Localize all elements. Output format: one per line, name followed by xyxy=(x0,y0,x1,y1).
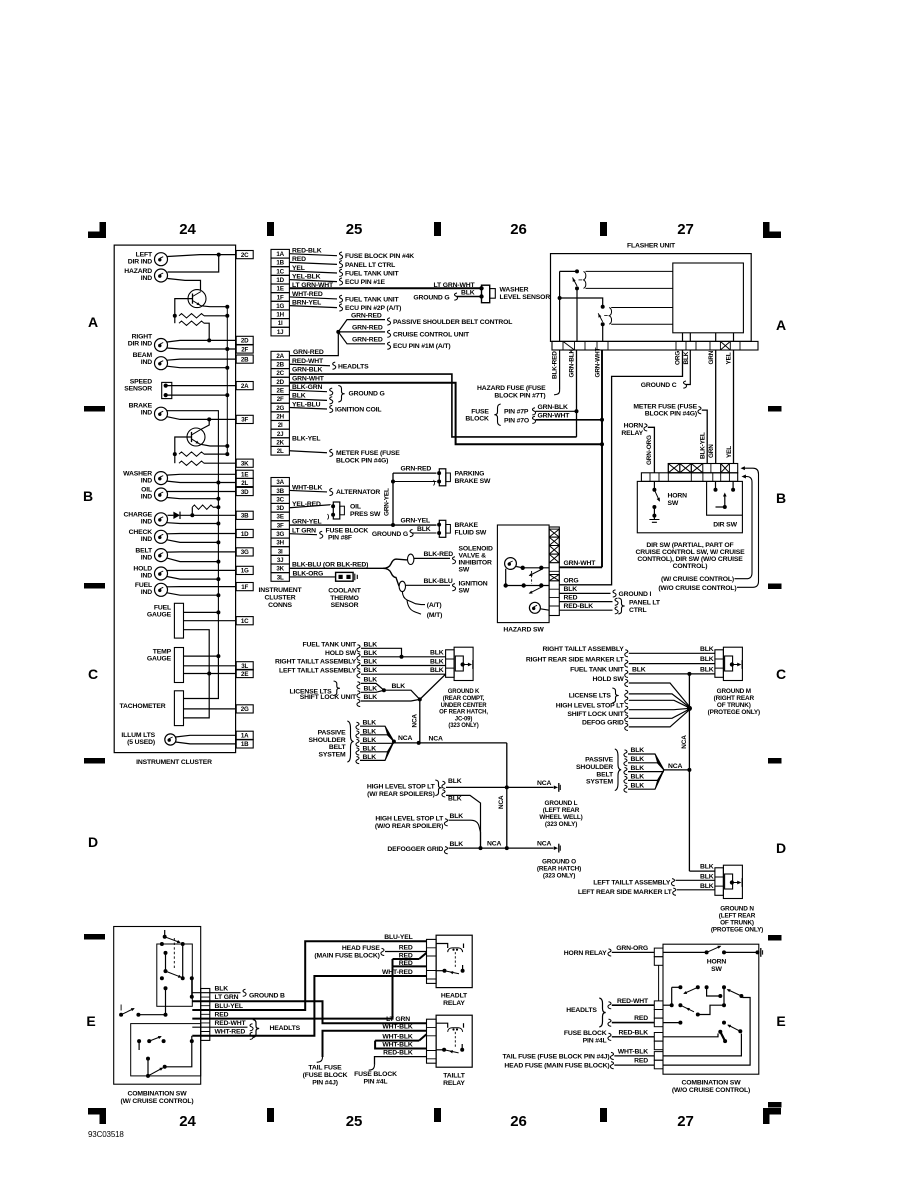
hook belt-left row4 xyxy=(356,748,359,755)
svg-text:GRN-WHT: GRN-WHT xyxy=(564,560,597,567)
wire 3G LT GRN fuse block xyxy=(289,534,317,535)
svg-text:BLK: BLK xyxy=(364,676,378,683)
svg-text:GRN-YEL: GRN-YEL xyxy=(292,519,322,526)
wire 2A GRN-RED riser xyxy=(289,332,338,356)
headlt relay contact xyxy=(443,969,447,973)
svg-text:GROUND O: GROUND O xyxy=(542,858,576,865)
cluster tab 2E xyxy=(236,669,253,677)
svg-text:RED-WHT: RED-WHT xyxy=(215,1020,247,1027)
svg-text:(W/ CRUISE CONTROL): (W/ CRUISE CONTROL) xyxy=(120,1098,193,1105)
svg-text:COOLANT: COOLANT xyxy=(328,588,362,595)
wire hazard RED-BLK xyxy=(559,609,612,611)
svg-text:GAUGE: GAUGE xyxy=(147,612,172,619)
wire hl stop top xyxy=(442,781,445,788)
ground M connector xyxy=(715,650,724,678)
hook belt-left row2 xyxy=(356,731,359,738)
svg-text:METER FUSE (FUSE: METER FUSE (FUSE xyxy=(336,450,400,457)
svg-text:RED: RED xyxy=(634,1015,648,1022)
svg-text:FUEL TANK UNIT: FUEL TANK UNIT xyxy=(302,641,357,648)
wire gk license merge xyxy=(384,690,420,699)
svg-text:SW: SW xyxy=(459,588,470,595)
svg-text:RED: RED xyxy=(292,256,306,263)
svg-text:2A: 2A xyxy=(241,383,249,390)
connector pin 2K xyxy=(271,438,289,447)
connector pin 3A xyxy=(271,478,289,487)
wire washer ind to 2L xyxy=(167,481,236,482)
wire 3B WHT-BLK alternator xyxy=(289,490,327,492)
svg-text:GROUND B: GROUND B xyxy=(249,993,285,1000)
wire flasher cross xyxy=(560,298,603,307)
connector pin 2C xyxy=(271,369,289,378)
wire A/T branch xyxy=(402,592,425,605)
connector pin 1A xyxy=(271,249,289,258)
wire wht-blk inside xyxy=(663,1034,741,1056)
svg-text:RIGHT: RIGHT xyxy=(132,334,153,341)
hook belt-right row4 xyxy=(624,776,627,783)
cluster tab 3F xyxy=(236,415,253,423)
svg-text:2E: 2E xyxy=(277,388,284,395)
speed sensor xyxy=(162,382,172,398)
connector pin 2I xyxy=(271,421,289,430)
svg-text:SOLENOID: SOLENOID xyxy=(459,546,494,553)
svg-text:CTRL: CTRL xyxy=(629,607,647,614)
svg-text:PIN #4L: PIN #4L xyxy=(364,1079,388,1086)
svg-text:2B: 2B xyxy=(276,362,284,369)
svg-text:BLK: BLK xyxy=(631,747,645,754)
svg-text:2D: 2D xyxy=(276,379,284,386)
svg-text:GRN: GRN xyxy=(708,444,715,458)
combination sw w/cruise box xyxy=(114,927,201,1085)
svg-text:PIN #7P: PIN #7P xyxy=(504,408,529,415)
svg-text:CLUSTER: CLUSTER xyxy=(264,595,295,602)
svg-text:2C: 2C xyxy=(276,370,284,377)
wire beam ind to 2B xyxy=(167,359,236,360)
svg-text:GROUND C: GROUND C xyxy=(641,382,677,389)
node gk junction xyxy=(418,697,422,701)
wire illum to 1A xyxy=(176,735,237,737)
wire 1F WHT-RED xyxy=(289,297,337,299)
wire gk fuel tank xyxy=(361,648,402,657)
svg-text:BELT: BELT xyxy=(329,744,347,751)
wire temp gauge to 3L xyxy=(184,665,237,667)
cluster tab 2F xyxy=(236,345,253,353)
grid corner mark top-right xyxy=(763,222,770,238)
margin dash right y758 xyxy=(768,758,782,764)
svg-text:COMBINATION SW: COMBINATION SW xyxy=(682,1080,742,1087)
svg-text:3F: 3F xyxy=(277,522,284,529)
svg-text:BLK-RED: BLK-RED xyxy=(424,551,454,558)
svg-text:IND: IND xyxy=(141,573,152,580)
svg-text:3L: 3L xyxy=(277,574,284,581)
svg-text:LICENSE LTS: LICENSE LTS xyxy=(569,693,612,700)
svg-text:HORN RELAY: HORN RELAY xyxy=(564,950,607,957)
wire 2B RED-WHT headlts xyxy=(289,364,330,366)
svg-text:RED-BLK: RED-BLK xyxy=(564,603,594,610)
oil pressure switch xyxy=(333,502,340,519)
svg-text:BLK: BLK xyxy=(631,774,645,781)
svg-text:25: 25 xyxy=(346,1113,362,1130)
connector pin 3I xyxy=(271,547,289,556)
svg-text:27: 27 xyxy=(677,1113,693,1130)
svg-text:HEAD FUSE (MAIN FUSE BLOCK): HEAD FUSE (MAIN FUSE BLOCK) xyxy=(504,1063,609,1070)
svg-text:BLK-YEL: BLK-YEL xyxy=(292,436,320,443)
cluster tab 3G xyxy=(236,548,253,556)
svg-text:LT GRN: LT GRN xyxy=(292,527,316,534)
wire ground L to connector xyxy=(507,786,554,788)
connector pin 3H xyxy=(271,538,289,547)
svg-text:RED: RED xyxy=(634,1058,648,1065)
svg-text:BLK: BLK xyxy=(364,685,378,692)
label GROUND G brace xyxy=(338,386,344,403)
svg-text:GROUND I: GROUND I xyxy=(619,591,652,598)
headlt relay box xyxy=(436,935,472,987)
svg-text:NCA: NCA xyxy=(681,735,688,749)
svg-text:GROUND L: GROUND L xyxy=(545,800,578,807)
svg-text:FUEL TANK UNIT: FUEL TANK UNIT xyxy=(345,296,400,303)
svg-text:BLK: BLK xyxy=(430,667,444,674)
wire 1G BRN-YEL xyxy=(289,306,337,308)
svg-text:CONNS: CONNS xyxy=(268,602,292,609)
wire flasher left vertical xyxy=(560,270,577,272)
svg-text:SENSOR: SENSOR xyxy=(124,385,152,392)
svg-text:2B: 2B xyxy=(241,356,249,363)
svg-text:BRAKE SW: BRAKE SW xyxy=(455,478,492,485)
wire GRN-WHT vertical xyxy=(601,350,603,567)
svg-text:RED-BLK: RED-BLK xyxy=(618,1029,648,1036)
svg-text:CHARGE: CHARGE xyxy=(123,512,152,519)
hook license lts 2 xyxy=(357,691,360,698)
svg-text:TACHOMETER: TACHOMETER xyxy=(120,703,166,710)
node gm junction xyxy=(687,706,692,711)
wire brake ind to 3F xyxy=(167,417,236,420)
svg-text:3B: 3B xyxy=(276,488,284,495)
flasher relay 2 xyxy=(601,305,605,309)
svg-text:NCA: NCA xyxy=(429,735,444,742)
svg-text:OF REAR HATCH,: OF REAR HATCH, xyxy=(439,710,488,716)
connector pin 3G xyxy=(271,529,289,538)
svg-text:CHECK: CHECK xyxy=(129,529,153,536)
lamp CHARGE IND xyxy=(155,513,168,526)
svg-text:DEFOGGER GRID: DEFOGGER GRID xyxy=(387,846,443,853)
svg-text:RED: RED xyxy=(399,944,413,951)
svg-text:OF TRUNK): OF TRUNK) xyxy=(720,920,754,927)
svg-text:TEMP: TEMP xyxy=(153,649,172,656)
svg-text:(REAR HATCH): (REAR HATCH) xyxy=(537,865,581,872)
wire pin 7P GRN-BLK xyxy=(532,408,535,415)
wire oil ind to bus xyxy=(167,498,218,499)
inline connector lower xyxy=(399,581,405,591)
svg-text:VALVE &: VALVE & xyxy=(459,553,487,560)
svg-text:GRN-WHT: GRN-WHT xyxy=(292,375,325,382)
dir sw inner box xyxy=(707,481,743,515)
svg-text:FLASHER UNIT: FLASHER UNIT xyxy=(627,242,676,249)
svg-text:PIN #8F: PIN #8F xyxy=(328,535,352,542)
svg-text:1H: 1H xyxy=(276,312,284,319)
svg-text:GRN-BLK: GRN-BLK xyxy=(538,404,569,411)
lamp ILLUM LTS xyxy=(165,734,176,745)
svg-text:BLK: BLK xyxy=(450,813,464,820)
dir sw contacts xyxy=(714,488,718,492)
wire beam ind lower to bus xyxy=(167,366,227,368)
wire gm NCA vertical xyxy=(688,674,690,871)
cluster tab 3B xyxy=(236,511,253,519)
svg-text:SHIFT LOCK UNIT: SHIFT LOCK UNIT xyxy=(300,694,357,701)
svg-text:CONTROL): CONTROL) xyxy=(673,563,708,570)
grid corner mark bottom-left xyxy=(100,1108,107,1124)
svg-text:FLUID SW: FLUID SW xyxy=(455,529,487,536)
connector pin 3J xyxy=(271,555,289,564)
svg-text:LT GRN-WHT: LT GRN-WHT xyxy=(434,282,476,289)
wire hazard RED xyxy=(559,601,612,603)
svg-text:2J: 2J xyxy=(277,431,284,438)
wire RED-BLK taillt xyxy=(375,1057,427,1065)
comb sw2 turn switch xyxy=(678,985,682,989)
svg-text:ORG: ORG xyxy=(675,351,682,365)
combination sw w/o cruise box xyxy=(663,944,759,1074)
wire Q1 collector to bus xyxy=(201,305,227,308)
svg-text:GROUND G: GROUND G xyxy=(349,391,385,398)
svg-text:GRN-WHT: GRN-WHT xyxy=(595,347,602,377)
svg-text:WHT-RED: WHT-RED xyxy=(382,969,413,976)
instrument cluster box xyxy=(114,245,235,752)
svg-text:BLK: BLK xyxy=(364,667,378,674)
svg-text:1C: 1C xyxy=(276,268,284,275)
svg-text:BLK: BLK xyxy=(364,694,378,701)
label headlts brace left xyxy=(253,1020,259,1038)
svg-text:GRN-YEL: GRN-YEL xyxy=(384,488,391,516)
svg-text:BLK: BLK xyxy=(700,883,714,890)
svg-text:BLK: BLK xyxy=(700,864,714,871)
wire WHT-BLK u-shape xyxy=(375,1041,426,1049)
svg-text:3D: 3D xyxy=(241,489,249,496)
svg-text:DIR SW: DIR SW xyxy=(713,522,737,529)
svg-text:GRN: GRN xyxy=(708,350,715,364)
svg-text:HAZARD SW: HAZARD SW xyxy=(503,627,544,634)
svg-text:THERMO: THERMO xyxy=(330,595,359,602)
svg-text:3J: 3J xyxy=(277,557,284,564)
wire hold ind to 1G xyxy=(167,569,236,571)
svg-text:1J: 1J xyxy=(277,329,284,336)
wire comb LT GRN xyxy=(192,1001,426,1023)
svg-text:BLOCK PIN #4G): BLOCK PIN #4G) xyxy=(336,457,388,464)
svg-text:(MAIN FUSE BLOCK): (MAIN FUSE BLOCK) xyxy=(314,952,379,959)
svg-text:TAIL FUSE: TAIL FUSE xyxy=(308,1065,342,1072)
svg-text:IND: IND xyxy=(141,275,152,282)
svg-text:RED-WHT: RED-WHT xyxy=(617,998,649,1005)
svg-text:RELAY: RELAY xyxy=(443,1000,465,1007)
wire hazard BLK ground i xyxy=(559,592,610,594)
svg-text:SW: SW xyxy=(668,500,679,507)
grid tick bottom 26/27 xyxy=(600,1108,607,1122)
connector pin 3L xyxy=(271,573,289,582)
svg-text:B: B xyxy=(83,488,93,504)
wire fuel ind to bus xyxy=(167,593,218,595)
flasher connector strip xyxy=(552,341,758,350)
wire gk left taillt xyxy=(361,673,446,675)
svg-text:1D: 1D xyxy=(241,531,249,538)
hook belt-right row1 xyxy=(624,750,627,757)
taillt relay contact xyxy=(442,1048,446,1052)
svg-text:(REAR COMPT,: (REAR COMPT, xyxy=(443,696,485,702)
svg-text:2F: 2F xyxy=(277,396,284,403)
svg-text:3A: 3A xyxy=(276,479,284,486)
svg-text:(RIGHT REAR: (RIGHT REAR xyxy=(714,695,755,702)
connector pin 2F xyxy=(271,395,289,404)
cluster tab 2B xyxy=(236,355,253,363)
dir sw connector upper row xyxy=(668,464,737,473)
svg-text:PRES SW: PRES SW xyxy=(350,511,381,518)
node belt-left NCA xyxy=(392,740,396,744)
connector pin 1B xyxy=(271,258,289,267)
cluster tab 3D xyxy=(236,487,253,495)
svg-text:E: E xyxy=(776,1013,785,1029)
svg-text:HIGH LEVEL STOP LT: HIGH LEVEL STOP LT xyxy=(375,815,444,822)
wire 2F BLK xyxy=(289,399,327,401)
wire gm license1 xyxy=(629,694,690,707)
lamp BELT IND xyxy=(155,549,168,562)
comb sw left mini switch xyxy=(119,1013,123,1017)
svg-text:GRN-BLK: GRN-BLK xyxy=(569,349,576,378)
wire gn left taillt xyxy=(676,879,715,881)
svg-text:FUSE BLOCK PIN #4K: FUSE BLOCK PIN #4K xyxy=(345,253,414,260)
svg-text:LEFT TAILLT ASSEMBLY: LEFT TAILLT ASSEMBLY xyxy=(593,879,671,886)
svg-text:BLOCK PIN #7T): BLOCK PIN #7T) xyxy=(494,393,545,400)
wire gm high level xyxy=(629,708,690,709)
svg-text:GROUND M: GROUND M xyxy=(717,688,751,695)
svg-text:WHT-BLK: WHT-BLK xyxy=(382,1024,413,1031)
svg-text:26: 26 xyxy=(510,221,526,238)
svg-text:METER FUSE (FUSE: METER FUSE (FUSE xyxy=(633,403,697,410)
cluster tab 1F xyxy=(236,583,253,591)
taillt relay box xyxy=(436,1015,472,1067)
svg-text:3K: 3K xyxy=(276,566,284,573)
svg-text:BLK: BLK xyxy=(417,526,431,533)
svg-text:YEL-BLK: YEL-BLK xyxy=(292,273,321,280)
svg-text:WHEEL WELL): WHEEL WELL) xyxy=(539,814,582,821)
wire 1A RED-BLK xyxy=(289,254,337,256)
svg-text:BELT: BELT xyxy=(596,771,614,778)
svg-text:LT GRN-WHT: LT GRN-WHT xyxy=(292,282,334,289)
svg-text:IGNITION: IGNITION xyxy=(459,580,488,587)
svg-text:BRN-YEL: BRN-YEL xyxy=(292,299,321,306)
wire GRN-RED to ecu pin 1M xyxy=(338,332,385,344)
svg-text:PIN #4L: PIN #4L xyxy=(583,1038,607,1045)
wire BLK-YEL from meter fuse xyxy=(702,410,707,463)
connector pin 1E xyxy=(271,284,289,293)
margin dash right y1102 xyxy=(768,1102,782,1108)
transistor Q2 xyxy=(187,428,205,446)
wire left dir ind to 2C xyxy=(168,255,237,257)
svg-text:BLK: BLK xyxy=(292,393,306,400)
connector pin 1H xyxy=(271,310,289,319)
svg-text:1F: 1F xyxy=(241,584,248,591)
grid tick top 26/27 xyxy=(600,222,607,236)
svg-text:2L: 2L xyxy=(277,448,284,455)
svg-text:HOLD SW: HOLD SW xyxy=(325,650,357,657)
wire fuel gauge to bus xyxy=(184,611,219,613)
wire comb RED-WHT xyxy=(192,1026,247,1028)
svg-text:BLK-ORG: BLK-ORG xyxy=(293,570,324,577)
svg-text:93C03518: 93C03518 xyxy=(88,1130,124,1139)
wire resistor to 2D xyxy=(207,338,211,342)
svg-text:DIR IND: DIR IND xyxy=(128,341,152,348)
svg-text:GROUND K: GROUND K xyxy=(448,689,480,695)
wire WHT-BLK step xyxy=(375,1040,419,1042)
svg-text:BLK: BLK xyxy=(631,756,645,763)
svg-text:GRN-RED: GRN-RED xyxy=(352,337,383,344)
wire brake ind to illum bus xyxy=(167,411,218,656)
lamp HOLD IND xyxy=(155,567,168,580)
svg-text:D: D xyxy=(88,834,98,850)
svg-text:GRN-RED: GRN-RED xyxy=(351,312,382,319)
cluster tab 2G xyxy=(236,705,253,713)
svg-text:PASSIVE: PASSIVE xyxy=(585,757,614,764)
fuel gauge xyxy=(174,603,183,638)
svg-text:3K: 3K xyxy=(241,461,249,468)
svg-text:(PROTEGE ONLY): (PROTEGE ONLY) xyxy=(711,927,763,934)
wire gm NCA to ground n xyxy=(689,870,715,872)
svg-text:2D: 2D xyxy=(241,338,249,345)
svg-text:NCA: NCA xyxy=(398,735,413,742)
wire red2 inside xyxy=(663,998,750,1066)
svg-text:OF TRUNK): OF TRUNK) xyxy=(717,702,751,709)
svg-text:HOLD SW: HOLD SW xyxy=(593,676,625,683)
cluster tab 3L xyxy=(236,662,253,670)
wire 3D YEL-RED oil pres sw xyxy=(289,505,330,508)
svg-text:INSTRUMENT CLUSTER: INSTRUMENT CLUSTER xyxy=(136,759,212,766)
svg-text:IND: IND xyxy=(141,494,152,501)
flasher unit box xyxy=(551,254,752,342)
wire M/T branch xyxy=(407,600,421,614)
svg-text:RED: RED xyxy=(215,1011,229,1018)
svg-text:NCA: NCA xyxy=(498,795,505,809)
svg-text:BLK: BLK xyxy=(392,683,406,690)
wire check ind to bus xyxy=(167,540,218,543)
svg-text:24: 24 xyxy=(179,221,196,238)
taillt relay connector xyxy=(427,1019,437,1063)
svg-text:BRAKE: BRAKE xyxy=(129,403,153,410)
wire Q2 base xyxy=(175,437,192,454)
lamp WASHER IND xyxy=(155,472,168,485)
svg-text:RIGHT TAILLT ASSEMBLY: RIGHT TAILLT ASSEMBLY xyxy=(543,646,625,653)
resistor R2 xyxy=(179,321,204,325)
cluster tab 3K xyxy=(236,459,253,467)
svg-text:26: 26 xyxy=(510,1113,526,1130)
svg-text:HEAD FUSE: HEAD FUSE xyxy=(342,945,381,952)
svg-text:GRN-ORG: GRN-ORG xyxy=(616,945,648,952)
svg-text:RELAY: RELAY xyxy=(443,1080,465,1087)
svg-text:LEFT REAR SIDE MARKER LT: LEFT REAR SIDE MARKER LT xyxy=(578,889,673,896)
svg-text:HAZARD: HAZARD xyxy=(124,268,152,275)
svg-text:BLK: BLK xyxy=(700,874,714,881)
svg-text:PASSIVE: PASSIVE xyxy=(318,730,347,737)
flasher bus vertical xyxy=(226,307,228,454)
resistor R5 charge xyxy=(191,507,193,515)
wire Q2 emitter up xyxy=(200,419,209,430)
svg-text:(W/O REAR SPOILER): (W/O REAR SPOILER) xyxy=(375,823,443,830)
svg-text:1E: 1E xyxy=(277,286,284,293)
connector pin 2G xyxy=(271,403,289,412)
connector pin 2L xyxy=(271,446,289,455)
svg-text:BLK: BLK xyxy=(683,351,690,364)
svg-text:BLK: BLK xyxy=(631,765,645,772)
svg-text:RED: RED xyxy=(399,953,413,960)
svg-text:2H: 2H xyxy=(276,413,284,420)
svg-text:3H: 3H xyxy=(276,540,284,547)
svg-text:SHOULDER: SHOULDER xyxy=(576,764,613,771)
wire YEL vertical xyxy=(733,350,735,464)
svg-text:BLK-YEL: BLK-YEL xyxy=(699,432,706,459)
